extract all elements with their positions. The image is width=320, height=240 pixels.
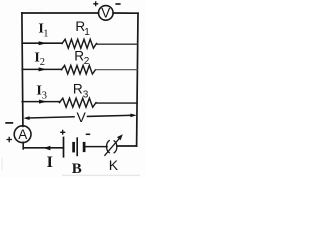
svg-text:R: R (74, 49, 84, 64)
svg-text:2: 2 (84, 56, 90, 67)
svg-text:1: 1 (43, 29, 48, 40)
svg-text:3: 3 (42, 90, 47, 101)
svg-text:3: 3 (83, 90, 89, 101)
svg-text:A: A (18, 127, 27, 142)
svg-text:R: R (73, 82, 83, 97)
svg-text:K: K (109, 157, 119, 173)
svg-text:B: B (72, 161, 82, 177)
svg-text:V: V (101, 6, 110, 21)
svg-text:I: I (47, 154, 53, 171)
svg-text:1: 1 (84, 27, 90, 38)
svg-text:2: 2 (40, 57, 45, 68)
svg-text:V: V (77, 109, 87, 125)
